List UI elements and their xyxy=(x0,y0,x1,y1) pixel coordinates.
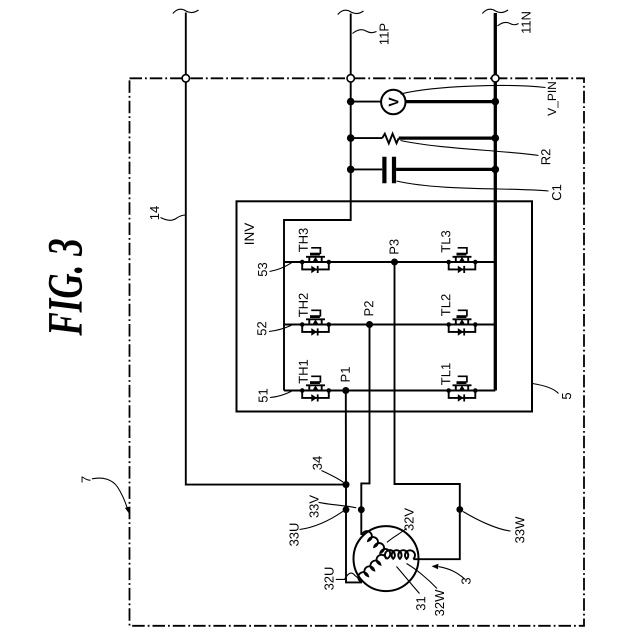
svg-text:31: 31 xyxy=(413,596,428,610)
wire 11P (down to inverter positive bus) xyxy=(350,82,352,221)
wire 11P above border xyxy=(350,14,352,75)
leader for label V_PIN xyxy=(401,86,546,94)
transistor TH3 xyxy=(300,248,331,273)
junction dot 33U xyxy=(343,506,350,513)
leader for label C1 xyxy=(397,181,549,191)
svg-text:52: 52 xyxy=(254,321,269,335)
voltmeter V_PIN xyxy=(347,90,499,114)
transistor TH2 xyxy=(300,310,331,335)
wire 11N above border (thick) xyxy=(494,13,497,74)
motor coil 32W xyxy=(385,550,415,559)
node P1 xyxy=(342,387,349,394)
leader for label 53 xyxy=(270,263,292,272)
positive bus inside inverter xyxy=(284,220,351,391)
leader for label 3 (arrow to motor) xyxy=(432,564,465,579)
wire 33V (P2 down to motor coil V) xyxy=(361,325,369,536)
transistor TL1 xyxy=(446,376,477,401)
junction dot 33V xyxy=(358,506,365,513)
wire 33U (P1 down to motor coil U) xyxy=(346,391,362,583)
svg-text:TH1: TH1 xyxy=(296,359,311,384)
svg-text:P2: P2 xyxy=(361,301,376,317)
leader for label 32U xyxy=(336,573,360,579)
leader for label 52 xyxy=(269,325,292,331)
svg-text:TH2: TH2 xyxy=(296,293,311,318)
svg-text:3: 3 xyxy=(458,577,473,584)
svg-text:32U: 32U xyxy=(321,567,336,591)
leader for label 31 xyxy=(397,567,420,594)
leader for label 32V xyxy=(387,529,407,543)
resistor R2 xyxy=(347,134,499,144)
leader for label 11N xyxy=(498,22,519,26)
transistor TL3 xyxy=(446,248,477,273)
leader for label 51 xyxy=(270,391,292,397)
wire 14 above border xyxy=(185,13,187,75)
svg-text:32V: 32V xyxy=(401,508,416,531)
leader for label 7 (arrow to border) xyxy=(92,478,130,514)
svg-text:11P: 11P xyxy=(376,23,391,45)
svg-text:14: 14 xyxy=(147,206,162,220)
svg-text:TL3: TL3 xyxy=(438,230,453,252)
svg-text:TH3: TH3 xyxy=(296,228,311,253)
svg-text:33U: 33U xyxy=(286,523,301,547)
motor 3 stator circle xyxy=(354,526,419,591)
svg-text:5: 5 xyxy=(559,392,574,399)
leader for label 33V xyxy=(319,502,357,508)
svg-text:32W: 32W xyxy=(432,589,447,616)
break mark on wire 11N xyxy=(482,9,508,13)
leader for label R2 xyxy=(401,141,539,156)
wire 11N (thick negative bus down to inverter) xyxy=(494,82,497,390)
svg-text:P1: P1 xyxy=(338,367,353,383)
svg-text:TL2: TL2 xyxy=(438,294,453,316)
enclosure border 7 (dash-dot) xyxy=(130,78,585,626)
node P3 xyxy=(391,259,398,266)
svg-text:TL1: TL1 xyxy=(438,363,453,385)
border terminal circle on wire 14 xyxy=(182,75,189,82)
leader for label 5 xyxy=(533,384,559,394)
svg-text:53: 53 xyxy=(255,262,270,276)
svg-text:34: 34 xyxy=(310,456,325,470)
leader for label 33U xyxy=(300,511,344,529)
node 34 junction dot xyxy=(343,481,350,488)
svg-text:7: 7 xyxy=(78,476,93,483)
transistor TL2 xyxy=(446,310,477,335)
leader for label 14 xyxy=(161,215,186,220)
svg-text:FIG. 3: FIG. 3 xyxy=(39,238,93,336)
phase row wire W (row 3) xyxy=(284,261,495,263)
svg-text:33W: 33W xyxy=(512,516,527,543)
leader for label 32W xyxy=(407,564,438,589)
inverter box (unit 5) xyxy=(237,201,533,411)
motor coil 32U xyxy=(358,555,386,582)
break mark on wire 11P xyxy=(338,10,364,14)
svg-text:R2: R2 xyxy=(538,149,553,166)
phase row wire U (row 1) xyxy=(284,390,495,392)
wire 14 (to node 34) xyxy=(186,82,343,484)
leader for label 33W xyxy=(463,512,511,532)
svg-text:V: V xyxy=(385,97,401,107)
svg-text:33V: 33V xyxy=(306,495,321,518)
wire 33W (P3 down and around to motor coil W) xyxy=(395,262,460,559)
leader for label 34 xyxy=(322,471,344,483)
junction dot 33W xyxy=(456,506,463,513)
phase row wire V (row 2) xyxy=(284,324,495,326)
leader for label 11P xyxy=(353,30,377,34)
border terminal circle on wire 11N xyxy=(492,75,499,82)
motor coil 32V xyxy=(362,531,390,559)
capacitor C1 xyxy=(347,157,499,183)
svg-text:INV: INV xyxy=(242,223,257,246)
svg-text:51: 51 xyxy=(255,388,270,402)
border terminal circle on wire 11P xyxy=(347,75,354,82)
svg-text:V_PIN: V_PIN xyxy=(545,81,559,116)
svg-text:P3: P3 xyxy=(386,239,401,255)
svg-text:11N: 11N xyxy=(518,11,533,34)
svg-text:C1: C1 xyxy=(549,184,564,201)
transistor TH1 xyxy=(300,376,331,401)
node P2 xyxy=(366,321,373,328)
break mark on wire 14 xyxy=(173,9,199,13)
